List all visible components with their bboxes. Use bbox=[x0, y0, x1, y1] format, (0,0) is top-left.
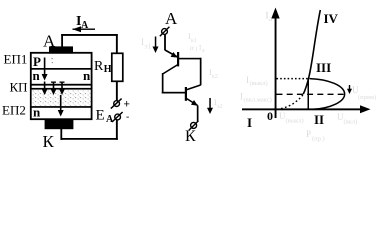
svg-text:II: II bbox=[314, 112, 324, 127]
source terminal plus bbox=[114, 101, 120, 107]
I axis (vertical) bbox=[275, 13, 277, 118]
transistor VT2 emitter lead bbox=[187, 99, 198, 106]
svg-text:а: а bbox=[202, 48, 205, 54]
svg-text:Е: Е bbox=[96, 108, 105, 124]
carrier arrow 1 through KP bbox=[44, 82, 46, 91]
svg-text:+: + bbox=[124, 99, 130, 111]
electron arrow through p-base into n bbox=[60, 95, 62, 111]
wire VT1 base to VT2 collector (right loop) bbox=[200, 58, 202, 86]
transistor VT1 base lead bbox=[179, 58, 202, 60]
wire top horizontal (A to RN) bbox=[61, 34, 117, 36]
svg-text:(прям): (прям) bbox=[358, 94, 376, 101]
svg-text:А: А bbox=[106, 114, 114, 125]
junction line EP1 (p/n) bbox=[31, 68, 91, 70]
svg-text:n: n bbox=[33, 68, 41, 83]
svg-text:(вкл): (вкл) bbox=[344, 119, 358, 126]
current arrow Ia (down) bbox=[155, 37, 157, 48]
svg-text:IV: IV bbox=[324, 11, 339, 26]
svg-text:Р: Р bbox=[33, 54, 41, 69]
svg-text:(выкл): (выкл) bbox=[250, 80, 268, 87]
current arrow Ik (down) bbox=[209, 98, 211, 109]
p-base speckled layer bbox=[32, 90, 91, 106]
dropline U_vykl bbox=[308, 79, 310, 109]
junction line EP2 (p/n) bbox=[31, 106, 91, 108]
transistor VT2 emitter arrowhead (npn) bbox=[191, 100, 198, 106]
anode electrode (black bar) bbox=[49, 46, 73, 53]
svg-text:α: α bbox=[190, 44, 194, 52]
carrier arrow 2 through KP bbox=[53, 82, 55, 91]
wire cathode stub bbox=[60, 128, 62, 140]
svg-text:n: n bbox=[83, 68, 91, 83]
svg-text:А: А bbox=[165, 9, 178, 28]
svg-text:III: III bbox=[316, 60, 331, 75]
cathode electrode (black bar) bbox=[45, 120, 74, 129]
switching curve region II (fold-back half-ellipse) bbox=[310, 79, 345, 110]
svg-text:(выкл): (выкл) bbox=[286, 118, 304, 125]
svg-text:0: 0 bbox=[267, 109, 273, 123]
current arrow IA bbox=[73, 29, 96, 30]
transistor VT1 emitter arrowhead (pnp) bbox=[171, 52, 178, 58]
wire right vertical to resistor bbox=[116, 34, 118, 54]
dashed level line I_vkl bbox=[277, 93, 346, 95]
dotted level line I_vykl bbox=[277, 78, 310, 80]
on-state curve unstable part (dotted, region II) bbox=[281, 94, 303, 108]
hole injection arrow from P into n bbox=[44, 58, 46, 76]
terminal K bbox=[191, 122, 197, 128]
structure box outline bbox=[31, 53, 92, 119]
resistor RN body bbox=[112, 53, 123, 81]
svg-text:К: К bbox=[185, 128, 196, 145]
svg-text:К: К bbox=[43, 132, 55, 151]
svg-text:R: R bbox=[94, 59, 104, 74]
wire VT2 emitter to K bbox=[197, 106, 199, 122]
on-state curve III-IV (steep) bbox=[303, 10, 320, 94]
svg-text:1: 1 bbox=[195, 47, 198, 53]
svg-text:n: n bbox=[33, 105, 41, 120]
svg-text:I: I bbox=[247, 115, 252, 130]
transistor VT1 base bar bbox=[177, 52, 179, 66]
carrier arrow 3 through KP bbox=[61, 82, 63, 91]
svg-text:к2: к2 bbox=[212, 74, 218, 80]
svg-text:Р: Р bbox=[306, 129, 311, 139]
svg-text:КП: КП bbox=[10, 80, 28, 95]
svg-text:-: - bbox=[126, 112, 129, 123]
svg-text:(пр.): (пр.) bbox=[312, 136, 325, 143]
svg-text:Н: Н bbox=[104, 64, 112, 75]
collector junction KP lower line bbox=[31, 88, 91, 90]
transistor VT1 emitter lead bbox=[165, 50, 178, 57]
U axis (horizontal) bbox=[242, 108, 366, 110]
wire source to bottom bbox=[116, 120, 118, 140]
svg-text:э1: э1 bbox=[145, 43, 152, 51]
transistor VT2 base bar bbox=[185, 87, 187, 101]
collector junction KP upper line bbox=[31, 84, 91, 86]
wire bottom horizontal (K to source) bbox=[61, 138, 118, 140]
wire A to VT1 emitter bbox=[164, 35, 166, 51]
svg-text:(вкл.макс): (вкл.макс) bbox=[244, 97, 272, 104]
svg-text:э2: э2 bbox=[217, 104, 223, 110]
terminal A bbox=[162, 29, 168, 35]
dotted mark in P layer bbox=[52, 58, 53, 59]
source terminal minus bbox=[115, 114, 121, 120]
transistor VT2 collector lead bbox=[187, 85, 201, 90]
svg-text:ЕП2: ЕП2 bbox=[2, 103, 26, 118]
wire anode stub bbox=[61, 34, 63, 47]
wire resistor to source bbox=[116, 81, 118, 100]
svg-text:А: А bbox=[81, 20, 89, 31]
svg-text:ЕП1: ЕП1 bbox=[4, 52, 28, 67]
wire VT1 collector to VT2 base (left loop) bbox=[163, 65, 178, 75]
pointer arrow at U_vkl vertex bbox=[349, 85, 350, 91]
